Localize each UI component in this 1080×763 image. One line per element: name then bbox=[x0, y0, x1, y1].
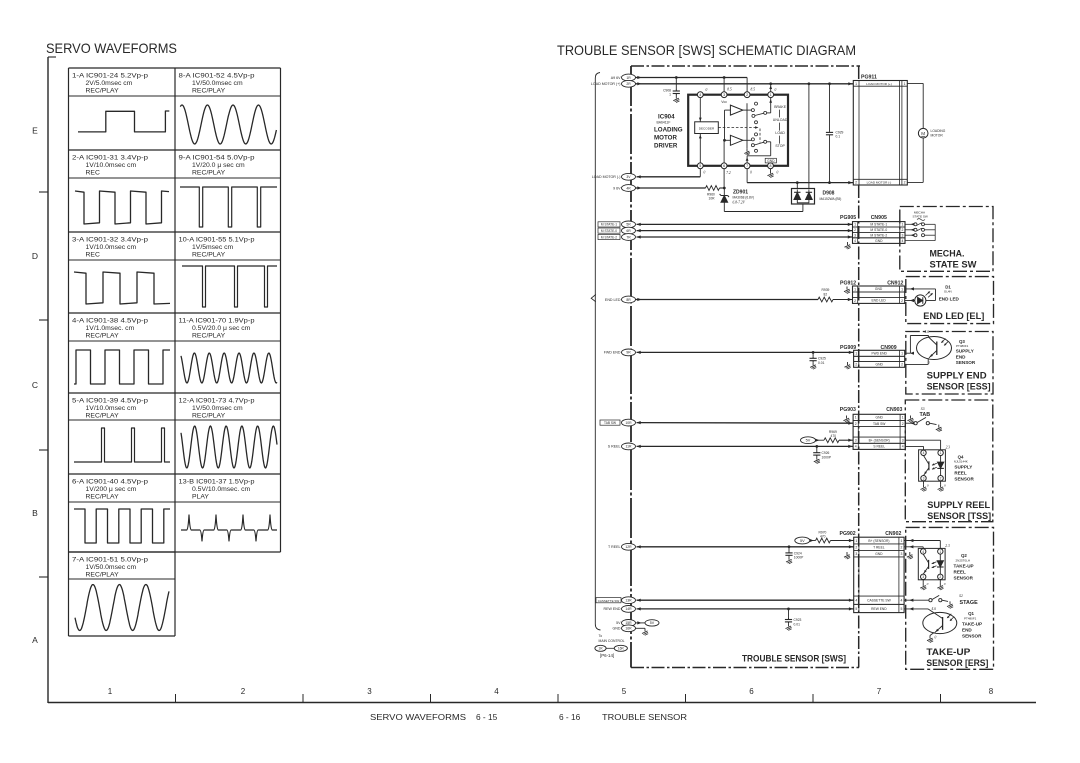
svg-text:4.6: 4.6 bbox=[925, 330, 930, 334]
capacitor C908 bbox=[663, 78, 680, 103]
svg-text:1: 1 bbox=[904, 82, 906, 86]
switch S3 TAB bbox=[905, 417, 942, 431]
svg-text:M STATE-2: M STATE-2 bbox=[870, 233, 887, 237]
svg-text:1000P: 1000P bbox=[794, 556, 804, 560]
svg-text:MOTOR: MOTOR bbox=[931, 134, 944, 138]
svg-text:13-B IC901-37 1.5Vp-p: 13-B IC901-37 1.5Vp-p bbox=[179, 479, 255, 486]
svg-text:1R: 1R bbox=[598, 647, 603, 651]
svg-text:TAB SW: TAB SW bbox=[604, 421, 616, 425]
svg-text:6: 6 bbox=[749, 687, 754, 696]
block MECHA STATE SW bbox=[900, 207, 993, 272]
svg-text:SUPPLY REEL: SUPPLY REEL bbox=[927, 500, 990, 510]
waveform 11-A IC901-70 bbox=[179, 318, 278, 384]
svg-text:CN902: CN902 bbox=[885, 531, 901, 537]
svg-text:PT480F1: PT480F1 bbox=[956, 344, 969, 348]
svg-text:LOAD MOTOR (+): LOAD MOTOR (+) bbox=[591, 82, 621, 86]
svg-text:1: 1 bbox=[940, 451, 942, 455]
svg-text:4: 4 bbox=[699, 93, 701, 97]
svg-text:1: 1 bbox=[901, 352, 903, 356]
svg-text:LOAD: LOAD bbox=[775, 131, 785, 135]
svg-text:B+ (SENSOR): B+ (SENSOR) bbox=[868, 539, 889, 543]
ground at PG909 pin2 bbox=[845, 362, 851, 369]
svg-text:D: D bbox=[32, 251, 38, 261]
connector PG911 bbox=[853, 75, 907, 186]
svg-text:2: 2 bbox=[854, 299, 856, 303]
svg-text:B: B bbox=[32, 508, 38, 518]
svg-text:D1: D1 bbox=[945, 284, 951, 289]
svg-text:GND: GND bbox=[875, 239, 883, 243]
svg-text:470: 470 bbox=[820, 535, 826, 539]
svg-text:STAGE: STAGE bbox=[960, 600, 979, 606]
svg-text:1V/50.0msec cm: 1V/50.0msec cm bbox=[192, 405, 243, 412]
svg-text:8R: 8R bbox=[626, 298, 631, 302]
svg-text:6.8-7.2V: 6.8-7.2V bbox=[733, 200, 746, 204]
svg-text:7.2: 7.2 bbox=[726, 171, 731, 175]
svg-text:6 - 16: 6 - 16 bbox=[559, 712, 581, 722]
svg-text:REW END: REW END bbox=[604, 607, 621, 611]
svg-text:1: 1 bbox=[854, 223, 856, 227]
svg-text:REC/PLAY: REC/PLAY bbox=[86, 88, 120, 95]
connector PG903 / CN903 bbox=[840, 407, 906, 449]
svg-text:2: 2 bbox=[854, 228, 856, 232]
svg-text:A: A bbox=[32, 635, 38, 645]
svg-text:0: 0 bbox=[944, 483, 946, 487]
phototransistor Q3 bbox=[917, 330, 952, 365]
svg-text:5V: 5V bbox=[806, 439, 811, 443]
switch mecha state contacts bbox=[905, 223, 935, 241]
block SUPPLY REEL SENSOR [TSS] bbox=[905, 400, 993, 522]
capacitor C923 0.01 bbox=[785, 609, 802, 631]
svg-text:MOTOR: MOTOR bbox=[654, 135, 677, 142]
connector PG905 / CN905 bbox=[840, 215, 905, 243]
svg-text:REC/PLAY: REC/PLAY bbox=[192, 333, 226, 340]
svg-text:1: 1 bbox=[901, 539, 903, 543]
svg-text:GND: GND bbox=[875, 287, 883, 291]
svg-text:LOAD MOTOR (-): LOAD MOTOR (-) bbox=[867, 181, 892, 185]
node REW END pin 14R bbox=[604, 606, 641, 613]
svg-text:GND: GND bbox=[767, 159, 775, 163]
node 5V pin 15R bbox=[616, 620, 659, 627]
node LOAD MOTOR(+) pin 2R bbox=[591, 80, 642, 87]
node M STATE-0 pin 6R bbox=[598, 227, 641, 234]
svg-text:S2: S2 bbox=[959, 594, 963, 598]
wire 9.6V to R960 bbox=[636, 187, 706, 189]
svg-text:GND: GND bbox=[875, 552, 883, 556]
svg-text:CASSETTE SW: CASSETTE SW bbox=[867, 598, 892, 602]
ground at IC904 pin8 bbox=[768, 169, 774, 178]
svg-text:5: 5 bbox=[622, 687, 627, 696]
connector PG902 / CN902 bbox=[840, 531, 905, 613]
node LOAD MOTOR(-) pin 3V bbox=[592, 173, 641, 180]
svg-text:0.1: 0.1 bbox=[836, 135, 841, 139]
node S REEL pin 11R bbox=[608, 443, 641, 450]
svg-text:5-A IC901-39 4.5Vp-p: 5-A IC901-39 4.5Vp-p bbox=[72, 398, 148, 405]
wire R939 to PG912 pin2 bbox=[833, 298, 853, 301]
svg-text:REC/PLAY: REC/PLAY bbox=[192, 413, 226, 420]
op-amp / driver IC U-IC904 BA6411F LOADING MOTOR DRIVER bbox=[654, 88, 788, 175]
svg-text:3: 3 bbox=[855, 552, 857, 556]
wire S REEL bbox=[637, 445, 854, 448]
svg-text:2: 2 bbox=[902, 422, 904, 426]
svg-text:2.3: 2.3 bbox=[946, 446, 951, 450]
svg-text:LOADING: LOADING bbox=[931, 129, 946, 133]
ground at PG905 pin4 bbox=[845, 242, 851, 249]
node M STATE-2 pin 7R bbox=[598, 234, 641, 241]
svg-text:2.3: 2.3 bbox=[945, 544, 950, 548]
svg-text:TAB SW: TAB SW bbox=[873, 422, 886, 426]
svg-text:10-A IC901-55 5.1Vp-p: 10-A IC901-55 5.1Vp-p bbox=[179, 237, 255, 244]
svg-text:4: 4 bbox=[901, 239, 903, 243]
svg-text:GL4N: GL4N bbox=[944, 290, 952, 294]
svg-text:TAKE-UP: TAKE-UP bbox=[954, 564, 974, 569]
svg-text:2: 2 bbox=[901, 545, 903, 549]
label TROUBLE SENSOR [SWS] bbox=[742, 654, 846, 665]
svg-text:TAKE-UP: TAKE-UP bbox=[962, 622, 982, 627]
svg-text:DRIVER: DRIVER bbox=[654, 143, 678, 150]
svg-text:REC/PLAY: REC/PLAY bbox=[86, 333, 120, 340]
svg-text:BA6411F: BA6411F bbox=[657, 121, 671, 125]
svg-text:1: 1 bbox=[108, 687, 113, 696]
svg-text:11R: 11R bbox=[626, 445, 633, 449]
svg-text:2: 2 bbox=[855, 422, 857, 426]
svg-text:1V/50.0msec cm: 1V/50.0msec cm bbox=[86, 564, 137, 571]
svg-text:REW END: REW END bbox=[871, 607, 887, 611]
wire D908 left diode to motor- line bbox=[796, 181, 799, 189]
ground at CN903 pin1 right bbox=[908, 416, 914, 423]
svg-text:1V/10.0msec cm: 1V/10.0msec cm bbox=[86, 162, 137, 169]
svg-text:1: 1 bbox=[669, 93, 671, 97]
svg-text:4: 4 bbox=[923, 451, 925, 455]
svg-text:82: 82 bbox=[824, 292, 828, 296]
svg-text:FWD END: FWD END bbox=[604, 351, 621, 355]
wire CN902 pin2 to Q2 pin4 bbox=[904, 545, 923, 548]
wire CN903 pin3 to Q4 pin1 bbox=[905, 440, 940, 450]
connector PG909 / CN909 bbox=[840, 345, 905, 368]
svg-text:S REEL: S REEL bbox=[608, 445, 621, 449]
svg-text:4: 4 bbox=[854, 239, 856, 243]
waveform table grid bbox=[69, 67, 281, 69]
svg-text:0.01: 0.01 bbox=[818, 361, 825, 365]
svg-text:2R: 2R bbox=[626, 82, 631, 86]
svg-text:S3: S3 bbox=[921, 407, 925, 411]
wire CASSETTE SW bbox=[637, 599, 854, 602]
svg-text:13R: 13R bbox=[625, 599, 632, 603]
svg-text:0: 0 bbox=[935, 636, 937, 640]
svg-text:2N25T0LH: 2N25T0LH bbox=[956, 558, 971, 562]
LED D1 bbox=[905, 287, 936, 306]
svg-text:5: 5 bbox=[901, 607, 903, 611]
svg-text:0: 0 bbox=[750, 171, 752, 175]
svg-text:Q1: Q1 bbox=[968, 611, 974, 616]
svg-text:1: 1 bbox=[855, 416, 857, 420]
svg-text:2: 2 bbox=[855, 363, 857, 367]
waveform 6-A IC901-40 bbox=[72, 479, 170, 544]
svg-text:REEL: REEL bbox=[954, 570, 966, 575]
svg-text:PG902: PG902 bbox=[840, 531, 856, 537]
svg-text:1000P: 1000P bbox=[822, 456, 832, 460]
svg-text:4-A IC901-38 4.5Vp-p: 4-A IC901-38 4.5Vp-p bbox=[72, 318, 148, 325]
svg-text:3: 3 bbox=[902, 439, 904, 443]
node END LED pin 8R bbox=[605, 296, 642, 303]
svg-text:PLAY: PLAY bbox=[192, 494, 209, 501]
svg-text:SUPPLY: SUPPLY bbox=[956, 349, 974, 354]
svg-text:9R: 9R bbox=[626, 351, 631, 355]
svg-text:0.01: 0.01 bbox=[794, 622, 801, 626]
svg-text:PG903: PG903 bbox=[840, 407, 856, 413]
waveform 10-A IC901-55 bbox=[179, 237, 278, 308]
svg-text:2: 2 bbox=[746, 93, 748, 97]
svg-text:2: 2 bbox=[940, 477, 942, 481]
svg-text:STATE SW: STATE SW bbox=[913, 215, 928, 219]
svg-text:0.5V/10.0msec. cm: 0.5V/10.0msec. cm bbox=[192, 486, 251, 493]
svg-text:4: 4 bbox=[855, 599, 857, 603]
svg-text:0.5V/20.0 μ sec cm: 0.5V/20.0 μ sec cm bbox=[192, 325, 251, 332]
svg-text:8.5: 8.5 bbox=[751, 88, 756, 92]
loading motor M bbox=[907, 83, 945, 182]
note To MAIN CONTROL P6-14 bbox=[595, 634, 628, 658]
wire CN909 pin1 to Q3 collector bbox=[905, 336, 929, 355]
svg-text:IC904: IC904 bbox=[658, 114, 675, 121]
IC904 pin1 wire to motor+ bbox=[769, 84, 772, 92]
svg-text:4: 4 bbox=[494, 687, 499, 696]
svg-text:2: 2 bbox=[241, 687, 246, 696]
ground at PG903 pin1 left bbox=[844, 416, 850, 423]
wire M STATE-2 bbox=[637, 235, 853, 238]
svg-text:SENSOR: SENSOR bbox=[954, 576, 974, 581]
svg-text:UNLOAD: UNLOAD bbox=[773, 118, 788, 122]
svg-text:6-A IC901-40 4.5Vp-p: 6-A IC901-40 4.5Vp-p bbox=[72, 479, 148, 486]
svg-text:2: 2 bbox=[901, 299, 903, 303]
waveform 12-A IC901-73 bbox=[179, 398, 278, 469]
svg-text:3: 3 bbox=[855, 439, 857, 443]
page frame bbox=[47, 57, 49, 703]
svg-text:TAB: TAB bbox=[920, 412, 931, 418]
svg-text:DECODER: DECODER bbox=[699, 126, 715, 130]
chain boundary of trouble sensor board bbox=[631, 66, 860, 668]
wire CN902 pin5 to Q1 collector bbox=[904, 607, 943, 618]
svg-text:3: 3 bbox=[854, 233, 856, 237]
node TAB SW pin 10R bbox=[600, 419, 641, 426]
svg-text:0: 0 bbox=[944, 582, 946, 586]
waveform 2-A IC901-31 bbox=[72, 155, 169, 225]
svg-text:3: 3 bbox=[901, 552, 903, 556]
svg-text:REC: REC bbox=[86, 252, 100, 259]
svg-text:TROUBLE SENSOR [SWS] SCHEMATIC: TROUBLE SENSOR [SWS] SCHEMATIC DIAGRAM bbox=[557, 42, 856, 58]
svg-text:3: 3 bbox=[923, 477, 925, 481]
wire D908 right diode to motor+ line bbox=[808, 84, 810, 189]
wire R969 to PG903 pin3 bbox=[839, 439, 853, 442]
svg-text:11-A IC901-70 1.9Vp-p: 11-A IC901-70 1.9Vp-p bbox=[179, 318, 255, 325]
svg-text:REC/PLAY: REC/PLAY bbox=[86, 413, 120, 420]
capacitor C925 0.01 bbox=[810, 352, 827, 369]
svg-text:[P6-14]: [P6-14] bbox=[600, 653, 614, 658]
svg-text:GND: GND bbox=[876, 416, 884, 420]
wire CN902 pin1 to Q2 pin1 bbox=[904, 539, 940, 549]
svg-text:LOAD MOTOR (+): LOAD MOTOR (+) bbox=[866, 82, 891, 86]
node 9.6V pin 4R bbox=[613, 185, 641, 192]
svg-text:M STATE-0: M STATE-0 bbox=[870, 228, 887, 232]
svg-text:1: 1 bbox=[770, 93, 772, 97]
resistor R939 82 bbox=[818, 288, 833, 302]
svg-text:1: 1 bbox=[855, 82, 857, 86]
svg-text:5: 5 bbox=[699, 164, 701, 168]
node GND pin 16R bbox=[613, 625, 649, 635]
svg-text:LOAD MOTOR (-): LOAD MOTOR (-) bbox=[592, 175, 621, 179]
resistor R969 470 bbox=[824, 430, 839, 443]
svg-text:5V: 5V bbox=[616, 621, 621, 625]
block SUPPLY END SENSOR [ESS] bbox=[906, 332, 993, 395]
phototransistor Q1 bbox=[923, 607, 957, 639]
svg-text:STATE SW: STATE SW bbox=[930, 260, 977, 270]
svg-text:MA152WA (B5): MA152WA (B5) bbox=[820, 197, 842, 201]
wire CN903 pin4 to Q4 pin4 bbox=[905, 446, 923, 450]
svg-text:8.5: 8.5 bbox=[727, 88, 732, 92]
svg-text:0: 0 bbox=[706, 88, 708, 92]
svg-text:7: 7 bbox=[746, 164, 748, 168]
svg-text:END LED: END LED bbox=[871, 299, 886, 303]
svg-text:END: END bbox=[962, 628, 972, 633]
svg-text:1: 1 bbox=[901, 287, 903, 291]
svg-text:LOADING: LOADING bbox=[654, 127, 683, 134]
wire Q3 emitter to CN909 pin2 bbox=[905, 358, 929, 364]
wire R970 to PG902 pin1 bbox=[831, 539, 854, 542]
svg-text:4: 4 bbox=[901, 599, 903, 603]
wire IC904 pin7 to PG911 pin2 (motor-) bbox=[747, 169, 853, 185]
svg-text:3-A IC901-32 3.4Vp-p: 3-A IC901-32 3.4Vp-p bbox=[72, 237, 148, 244]
wire M STATE-1 bbox=[637, 223, 853, 226]
svg-text:3: 3 bbox=[723, 93, 725, 97]
svg-text:TROUBLE SENSOR [SWS]: TROUBLE SENSOR [SWS] bbox=[742, 654, 846, 665]
waveform 3-A IC901-32 bbox=[72, 237, 170, 305]
svg-text:SENSOR: SENSOR bbox=[954, 477, 974, 482]
svg-text:M STATE-0: M STATE-0 bbox=[601, 229, 617, 233]
wire ZD901 anode rail to D908 bbox=[724, 204, 803, 212]
svg-text:REC/PLAY: REC/PLAY bbox=[86, 572, 120, 579]
svg-text:10R: 10R bbox=[625, 421, 632, 425]
dual diode D908 MA152WA bbox=[792, 189, 842, 205]
svg-text:2: 2 bbox=[855, 545, 857, 549]
svg-text:0: 0 bbox=[927, 582, 929, 586]
svg-text:STOP: STOP bbox=[775, 144, 785, 148]
svg-text:C: C bbox=[32, 380, 38, 390]
svg-text:16R: 16R bbox=[618, 647, 625, 651]
svg-text:1: 1 bbox=[855, 539, 857, 543]
svg-text:END LED: END LED bbox=[939, 296, 960, 301]
svg-text:SENSOR [ERS]: SENSOR [ERS] bbox=[926, 658, 988, 668]
svg-text:470: 470 bbox=[831, 434, 837, 438]
wire TAB SW bbox=[637, 422, 854, 425]
wire FWD END bbox=[637, 351, 854, 354]
svg-text:7R: 7R bbox=[626, 235, 631, 239]
svg-text:1V/10.0msec cm: 1V/10.0msec cm bbox=[86, 244, 137, 251]
svg-text:4: 4 bbox=[922, 550, 924, 554]
IC904 pin3 pin2 supply taps bbox=[724, 78, 747, 92]
waveform 13-B IC901-37 bbox=[179, 479, 278, 542]
wire R960 to IC904 pin6 bbox=[720, 169, 726, 190]
svg-text:2: 2 bbox=[855, 181, 857, 185]
svg-text:REC: REC bbox=[86, 170, 100, 177]
wire LOAD MOTOR(+) bbox=[636, 82, 854, 85]
svg-text:1V/10.0msec cm: 1V/10.0msec cm bbox=[86, 405, 137, 412]
svg-text:SUPPLY: SUPPLY bbox=[954, 465, 972, 470]
switch S2 STAGE bbox=[904, 595, 953, 608]
svg-text:SENSOR: SENSOR bbox=[956, 360, 976, 365]
node CASSETTE SW pin 13R bbox=[596, 597, 641, 604]
svg-text:1: 1 bbox=[902, 416, 904, 420]
svg-text:SERVO WAVEFORMS: SERVO WAVEFORMS bbox=[46, 40, 177, 56]
svg-text:0: 0 bbox=[704, 171, 706, 175]
node B+ supply 5V to R970 bbox=[795, 537, 816, 544]
svg-text:2: 2 bbox=[939, 575, 941, 579]
svg-text:A9 6V: A9 6V bbox=[611, 76, 621, 80]
resistor R970 470 bbox=[816, 530, 831, 543]
svg-text:TAKE-UP: TAKE-UP bbox=[926, 647, 970, 657]
svg-text:2-A IC901-31 3.4Vp-p: 2-A IC901-31 3.4Vp-p bbox=[72, 155, 148, 162]
ground at CN902 pin3 right bbox=[907, 552, 913, 559]
left bracket to main control bbox=[595, 73, 600, 631]
svg-text:1: 1 bbox=[854, 287, 856, 291]
svg-text:S REEL: S REEL bbox=[873, 445, 885, 449]
svg-text:1R: 1R bbox=[626, 76, 631, 80]
wire Q1 emitter to ground bbox=[927, 632, 934, 642]
capacitor C924 1000P bbox=[785, 547, 804, 564]
svg-text:2: 2 bbox=[901, 228, 903, 232]
svg-text:6R: 6R bbox=[626, 229, 631, 233]
svg-text:7: 7 bbox=[877, 687, 882, 696]
svg-text:16R: 16R bbox=[625, 627, 632, 631]
svg-text:SUPPLY END: SUPPLY END bbox=[927, 370, 987, 380]
ground at PG902 pin3 left bbox=[844, 552, 850, 559]
svg-text:2: 2 bbox=[901, 363, 903, 367]
wire A9 6V bbox=[636, 76, 748, 79]
svg-text:5V: 5V bbox=[650, 621, 655, 625]
svg-text:M: M bbox=[921, 131, 925, 136]
wire REW END bbox=[637, 607, 854, 610]
svg-text:10R: 10R bbox=[709, 197, 716, 201]
svg-text:T REEL: T REEL bbox=[608, 545, 621, 549]
opto sensor Q4 supply reel bbox=[919, 446, 951, 492]
svg-text:CN903: CN903 bbox=[886, 407, 902, 413]
capacitor C926 1000P bbox=[813, 446, 832, 463]
node A9 6V pin 1R bbox=[611, 74, 642, 81]
svg-text:PG911: PG911 bbox=[861, 75, 877, 81]
svg-text:Q2: Q2 bbox=[961, 553, 967, 558]
svg-text:M STATE-1: M STATE-1 bbox=[870, 223, 887, 227]
svg-text:2V/5.0msec cm: 2V/5.0msec cm bbox=[86, 80, 133, 87]
svg-text:3: 3 bbox=[922, 575, 924, 579]
ground at PG912 pin1 bbox=[844, 287, 850, 294]
waveform 1-A IC901-24 bbox=[72, 73, 169, 132]
svg-text:8: 8 bbox=[989, 687, 994, 696]
svg-text:5: 5 bbox=[855, 607, 857, 611]
waveform 7-A IC901-51 bbox=[72, 557, 169, 631]
svg-text:M STATE-2: M STATE-2 bbox=[601, 235, 617, 239]
svg-text:NJL5144K: NJL5144K bbox=[954, 460, 968, 464]
resistor R960 10R bbox=[706, 186, 720, 201]
svg-text:SENSOR: SENSOR bbox=[962, 634, 982, 639]
svg-text:CASSETTE SW: CASSETTE SW bbox=[598, 599, 620, 603]
wire LOAD MOTOR(-) to IC904 pin5 bbox=[637, 169, 701, 177]
svg-text:Vcc: Vcc bbox=[721, 100, 727, 104]
svg-text:REC/PLAY: REC/PLAY bbox=[192, 170, 226, 177]
wire T REEL bbox=[637, 545, 854, 548]
svg-text:1: 1 bbox=[939, 550, 941, 554]
svg-text:END LED: END LED bbox=[605, 298, 621, 302]
svg-text:1V/20.0 μ sec cm: 1V/20.0 μ sec cm bbox=[192, 162, 245, 169]
svg-text:12R: 12R bbox=[625, 545, 632, 549]
svg-text:GND: GND bbox=[876, 363, 884, 367]
svg-text:1: 1 bbox=[855, 352, 857, 356]
